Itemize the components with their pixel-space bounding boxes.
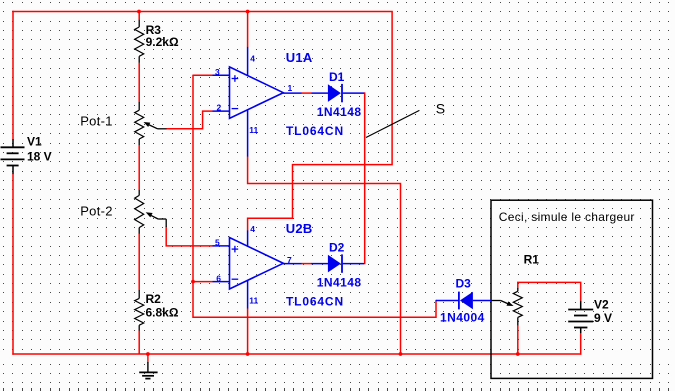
svg-text:R2: R2 — [146, 292, 162, 306]
svg-text:TL064CN: TL064CN — [286, 295, 344, 309]
svg-text:4: 4 — [250, 53, 255, 63]
svg-text:TL064CN: TL064CN — [286, 124, 344, 138]
svg-text:D1: D1 — [329, 70, 345, 84]
svg-text:S: S — [436, 101, 445, 117]
svg-text:5: 5 — [215, 238, 220, 248]
svg-text:1N4004: 1N4004 — [440, 310, 485, 324]
svg-text:1N4148: 1N4148 — [317, 105, 362, 119]
svg-text:Pot-2: Pot-2 — [80, 204, 113, 219]
svg-text:U1A: U1A — [286, 50, 313, 65]
svg-text:9.2kΩ: 9.2kΩ — [146, 35, 179, 49]
svg-text:4: 4 — [250, 224, 255, 234]
svg-text:R1: R1 — [524, 253, 540, 267]
svg-text:D2: D2 — [329, 241, 345, 255]
svg-text:U2B: U2B — [286, 221, 313, 236]
svg-text:V2: V2 — [594, 298, 609, 312]
svg-text:6.8kΩ: 6.8kΩ — [146, 306, 179, 320]
svg-text:1: 1 — [288, 83, 293, 93]
svg-text:11: 11 — [249, 296, 258, 306]
svg-text:18 V: 18 V — [27, 149, 52, 163]
svg-text:6: 6 — [216, 273, 221, 283]
svg-text:Ceci, simule le chargeur: Ceci, simule le chargeur — [499, 210, 635, 224]
svg-text:9 V: 9 V — [594, 311, 612, 325]
svg-text:V1: V1 — [27, 135, 42, 149]
svg-text:7: 7 — [287, 255, 292, 265]
svg-text:1N4148: 1N4148 — [317, 276, 362, 290]
svg-text:D3: D3 — [456, 277, 472, 291]
svg-text:3: 3 — [215, 67, 220, 77]
svg-text:2: 2 — [217, 103, 222, 113]
svg-text:Pot-1: Pot-1 — [80, 114, 113, 129]
svg-text:11: 11 — [249, 125, 258, 135]
